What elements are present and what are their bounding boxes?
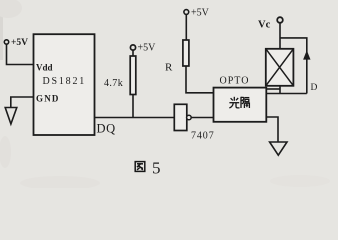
svg-text:R: R — [165, 62, 173, 74]
ground (right) — [270, 142, 287, 155]
svg-text:Vc: Vc — [258, 20, 271, 31]
wire relay coil bottom stub — [279, 86, 281, 94]
resistor R1 R — [165, 14, 189, 73]
optocoupler U3 OPTO — [214, 76, 267, 122]
caption 图 5 — [135, 159, 160, 178]
svg-text:4.7k: 4.7k — [104, 78, 123, 89]
power terminal +5V (right) — [184, 8, 210, 19]
diode D (arrow) — [303, 50, 317, 93]
resistor R2 4.7k — [104, 50, 136, 94]
wire R to opto pin (anode) — [186, 66, 214, 93]
svg-text:+5V: +5V — [11, 38, 28, 48]
wire GND pin to ground — [11, 97, 34, 108]
paper background — [0, 0, 338, 190]
wire opto collector to relay (upper) — [266, 88, 280, 90]
ground (left) — [5, 108, 17, 125]
IC U1 DS1821 — [34, 34, 116, 135]
svg-text:5: 5 — [152, 159, 161, 178]
power terminal Vc — [258, 17, 283, 30]
wire Vc to relay coil top — [279, 23, 281, 49]
wire Vc branch to diode — [280, 38, 307, 94]
svg-text:+5V: +5V — [138, 43, 157, 54]
wire 7407 output to opto pin (cathode) — [191, 117, 213, 119]
buffer U2 7407 — [174, 104, 214, 141]
wire DQ net — [95, 117, 175, 119]
power terminal +5V (left) — [4, 38, 28, 48]
label 光隔 (glyph strokes) — [229, 97, 249, 108]
svg-text:DS1821: DS1821 — [43, 76, 87, 87]
wire opto pin to diode anode (lower) — [266, 93, 307, 95]
svg-text:7407: 7407 — [191, 131, 215, 142]
svg-text:DQ: DQ — [97, 122, 116, 136]
svg-text:+5V: +5V — [191, 8, 210, 19]
svg-text:Vdd: Vdd — [36, 63, 53, 73]
svg-text:OPTO: OPTO — [220, 76, 250, 87]
relay coil K (X-box) — [266, 49, 294, 86]
svg-text:D: D — [311, 83, 318, 93]
svg-text:GND: GND — [36, 94, 60, 104]
wire 4.7k to DQ net — [132, 95, 134, 118]
wire opto emitter to ground — [266, 117, 278, 142]
power terminal +5V (middle) — [130, 43, 156, 54]
wire +5V to Vdd pin — [7, 44, 34, 64]
